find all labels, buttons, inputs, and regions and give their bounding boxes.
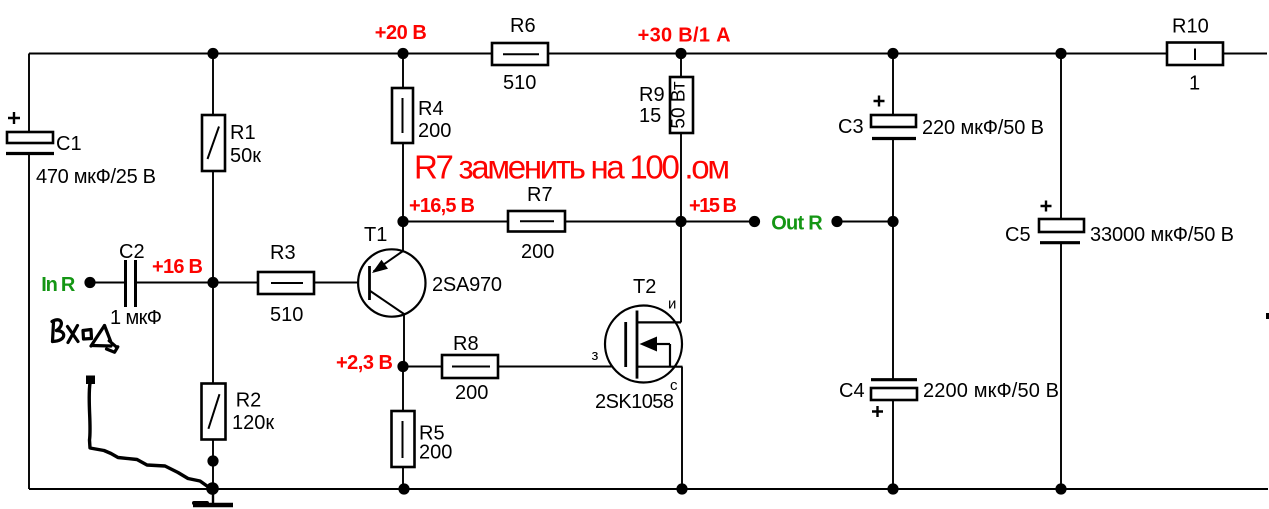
svg-text:C1: C1 — [56, 133, 82, 155]
svg-text:+30 В/1 А: +30 В/1 А — [638, 25, 731, 47]
svg-text:15: 15 — [639, 105, 661, 127]
svg-text:C4: C4 — [839, 380, 865, 402]
svg-text:C5: C5 — [1005, 224, 1031, 246]
svg-text:R3: R3 — [270, 242, 296, 264]
svg-text:200: 200 — [455, 382, 488, 404]
svg-text:2200 мкФ/50 В: 2200 мкФ/50 В — [923, 380, 1059, 402]
svg-text:200: 200 — [419, 441, 452, 463]
svg-text:+2,3 В: +2,3 В — [336, 352, 393, 374]
svg-text:In R: In R — [41, 274, 76, 296]
svg-text:с: с — [670, 377, 678, 394]
svg-text:220 мкФ/50 В: 220 мкФ/50 В — [922, 117, 1044, 139]
svg-text:200: 200 — [418, 120, 451, 142]
svg-text:Out R: Out R — [771, 212, 823, 234]
svg-text:+20 В: +20 В — [375, 22, 427, 44]
svg-text:з: з — [592, 347, 599, 364]
svg-text:и: и — [668, 296, 676, 313]
svg-text:50 Вт: 50 Вт — [669, 81, 690, 128]
svg-text:R7 заменить на 100 .ом: R7 заменить на 100 .ом — [414, 149, 730, 186]
svg-text:R4: R4 — [418, 98, 444, 120]
svg-text:33000 мкФ/50 В: 33000 мкФ/50 В — [1090, 224, 1234, 246]
svg-text:R10: R10 — [1172, 16, 1209, 38]
svg-text:T1: T1 — [364, 224, 387, 246]
svg-text:R6: R6 — [510, 15, 536, 37]
svg-text:1: 1 — [1189, 73, 1200, 95]
svg-text:+16,5 В: +16,5 В — [409, 195, 475, 217]
svg-text:C2: C2 — [119, 241, 145, 263]
svg-text:R9: R9 — [639, 84, 665, 106]
svg-text:2SK1058: 2SK1058 — [595, 391, 674, 413]
svg-text:R1: R1 — [230, 122, 256, 144]
svg-text:+15 В: +15 В — [689, 195, 737, 217]
svg-text:510: 510 — [270, 304, 303, 326]
svg-text:120к: 120к — [232, 412, 274, 434]
svg-text:510: 510 — [503, 72, 536, 94]
svg-text:+16 В: +16 В — [152, 256, 203, 278]
svg-text:T2: T2 — [633, 276, 656, 298]
svg-text:50к: 50к — [230, 145, 261, 167]
svg-text:R2: R2 — [236, 390, 262, 412]
svg-text:1 мкФ: 1 мкФ — [110, 307, 162, 329]
svg-text:470 мкФ/25 В: 470 мкФ/25 В — [36, 166, 156, 188]
svg-text:R7: R7 — [527, 184, 553, 206]
svg-text:2SA970: 2SA970 — [432, 274, 502, 296]
svg-text:C3: C3 — [838, 116, 864, 138]
svg-text:200: 200 — [521, 241, 554, 263]
svg-text:R8: R8 — [453, 333, 479, 355]
